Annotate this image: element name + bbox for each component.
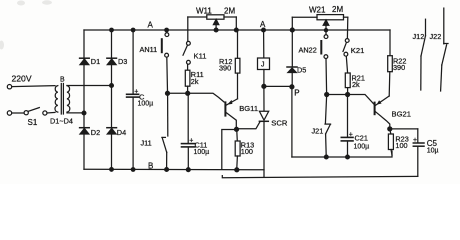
node W21 left rail xyxy=(290,28,294,32)
svg-text:W11: W11 xyxy=(196,6,212,15)
svg-text:J: J xyxy=(261,62,265,69)
wire to S1 xyxy=(12,112,24,114)
node J21 bottom xyxy=(324,155,328,159)
svg-text:390: 390 xyxy=(219,64,231,73)
capacitor C5 xyxy=(413,129,424,177)
wire secondary bottom lead xyxy=(67,112,84,114)
wire node to J11 xyxy=(167,95,169,136)
node A junction AN11 xyxy=(165,28,169,32)
resistor R13 xyxy=(235,141,240,168)
smudge xyxy=(42,0,52,4)
smudge xyxy=(17,1,25,6)
relay contact J22 xyxy=(441,8,448,91)
wire emitter to R23 xyxy=(389,131,392,134)
pushbutton AN22 xyxy=(320,35,328,59)
relay contact J11 xyxy=(162,137,167,168)
wire emitter line to C5 xyxy=(392,128,418,130)
wire collector to R13 xyxy=(236,131,239,141)
node AN22 branch xyxy=(325,93,329,97)
svg-text:AN11: AN11 xyxy=(140,45,158,54)
node bottom rail D4 xyxy=(110,168,114,172)
terminal 220V top xyxy=(7,85,11,89)
node secondary bottom junction xyxy=(82,111,86,115)
capacitor C11 xyxy=(182,95,196,169)
resistor R12 xyxy=(235,32,240,99)
node top rail D3 xyxy=(110,28,114,32)
svg-text:J12: J12 xyxy=(413,32,425,41)
svg-text:D1: D1 xyxy=(91,57,100,66)
node J bottom xyxy=(262,84,266,88)
resistor R11 xyxy=(185,64,190,91)
potentiometer W21 xyxy=(292,15,348,39)
svg-text:P: P xyxy=(294,89,299,98)
node C bottom xyxy=(131,168,135,172)
node timing right xyxy=(186,91,190,95)
potentiometer W11 xyxy=(188,15,237,42)
node W11 right rail xyxy=(234,28,238,32)
svg-text:D1~D4: D1~D4 xyxy=(50,117,73,126)
svg-text:100µ: 100µ xyxy=(354,144,370,151)
svg-text:J22: J22 xyxy=(430,32,442,41)
svg-text:220V: 220V xyxy=(12,74,32,84)
transformer B primary coil xyxy=(55,86,58,113)
wire collector node to ground rail xyxy=(222,130,235,170)
wire BG21 base xyxy=(350,95,374,105)
relay contact J12 xyxy=(421,19,426,90)
smudge xyxy=(0,41,4,50)
node BG21 emitter xyxy=(388,127,392,131)
relay coil J xyxy=(258,58,270,70)
node timing left xyxy=(166,91,170,95)
node BG11 collector xyxy=(235,127,239,131)
relay contact K21 xyxy=(343,39,349,57)
switch S1 xyxy=(24,108,47,116)
node A right junction xyxy=(262,28,266,32)
wire rail to J coil xyxy=(263,32,265,58)
svg-text:K11: K11 xyxy=(194,51,207,60)
svg-text:K21: K21 xyxy=(351,46,365,55)
svg-text:D2: D2 xyxy=(91,128,100,137)
node W11 wiper rail xyxy=(214,28,218,32)
node D5 top rail xyxy=(290,28,294,32)
node C11 bottom xyxy=(186,168,190,172)
capacitor C (filter) xyxy=(127,30,139,170)
svg-text:+: + xyxy=(413,137,417,144)
transistor BG21 xyxy=(374,96,390,127)
resistor R21 xyxy=(345,56,350,92)
wire timing node link xyxy=(170,92,186,94)
wire BG11 base xyxy=(190,93,224,102)
wire node P line xyxy=(266,85,290,87)
svg-text:D5: D5 xyxy=(297,66,306,75)
relay contact K11 xyxy=(183,41,190,64)
transformer B secondary coil xyxy=(67,86,70,113)
node secondary top junction xyxy=(110,84,114,88)
node J11 bottom xyxy=(165,168,169,172)
svg-text:B: B xyxy=(148,161,153,170)
wire gate from collector node xyxy=(239,122,260,129)
diode D4 xyxy=(107,128,117,134)
pushbutton AN11 xyxy=(161,32,169,58)
svg-text:J21: J21 xyxy=(312,127,324,136)
wire AN11 bottom to node xyxy=(166,57,169,91)
svg-text:B: B xyxy=(60,77,65,84)
svg-text:W21: W21 xyxy=(309,5,326,14)
svg-text:BG11: BG11 xyxy=(239,104,258,113)
capacitor C21 xyxy=(341,97,353,156)
resistor R22 xyxy=(388,30,393,96)
svg-text:100µ: 100µ xyxy=(194,149,210,156)
svg-text:+: + xyxy=(134,89,138,96)
node W21 wiper rail xyxy=(324,29,327,32)
wire P vertical xyxy=(291,89,293,157)
svg-text:BG21: BG21 xyxy=(392,109,411,118)
svg-text:A: A xyxy=(260,20,266,29)
svg-text:100: 100 xyxy=(395,141,407,150)
wire bottom rail right lower xyxy=(222,176,417,178)
svg-text:10µ: 10µ xyxy=(427,147,439,154)
diode D1 xyxy=(80,58,90,64)
wire bridge right vertical xyxy=(111,30,113,169)
wire top rail A xyxy=(84,29,390,31)
terminal 220V bottom xyxy=(7,111,11,115)
node C top xyxy=(131,28,135,32)
svg-text:D4: D4 xyxy=(117,128,126,137)
node P xyxy=(290,85,294,89)
svg-text:AN22: AN22 xyxy=(299,45,317,54)
svg-text:2k: 2k xyxy=(352,80,360,89)
wire bottom rail left (ground) xyxy=(84,169,264,177)
wire bridge left vertical xyxy=(83,30,85,169)
thyristor SCR xyxy=(259,88,268,169)
diode D3 xyxy=(107,58,117,64)
node R13 bottom xyxy=(235,168,239,172)
svg-text:2M: 2M xyxy=(224,6,235,15)
svg-text:390: 390 xyxy=(393,63,405,72)
wire AN22 bottom to node xyxy=(325,59,328,93)
node R21 bottom xyxy=(346,93,350,97)
wire 220V top lead xyxy=(12,86,55,87)
svg-text:S1: S1 xyxy=(28,118,38,127)
svg-text:SCR: SCR xyxy=(271,119,288,128)
resistor R23 xyxy=(388,134,393,155)
svg-text:D3: D3 xyxy=(118,57,127,66)
diode D2 xyxy=(80,128,90,134)
svg-text:100µ: 100µ xyxy=(138,101,154,108)
node C21 bottom xyxy=(346,155,350,159)
wire J coil to P line xyxy=(263,70,265,85)
svg-text:C21: C21 xyxy=(355,134,368,143)
wire S1 to transformer xyxy=(47,111,55,114)
wire right channel rail xyxy=(292,151,392,157)
svg-text:2k: 2k xyxy=(191,77,199,86)
transformer B core xyxy=(61,84,63,115)
wire branch link xyxy=(329,94,346,96)
svg-text:J11: J11 xyxy=(141,138,152,147)
diode D5 xyxy=(287,32,297,85)
svg-text:2M: 2M xyxy=(332,5,343,14)
svg-text:+: + xyxy=(349,131,353,138)
svg-text:100: 100 xyxy=(241,147,253,156)
wire secondary top lead xyxy=(67,85,112,87)
transistor BG11 xyxy=(224,99,237,128)
relay contact J21 xyxy=(325,124,331,155)
svg-text:A: A xyxy=(148,20,154,29)
svg-text:+: + xyxy=(189,137,193,144)
wire node to J21 xyxy=(325,96,326,123)
